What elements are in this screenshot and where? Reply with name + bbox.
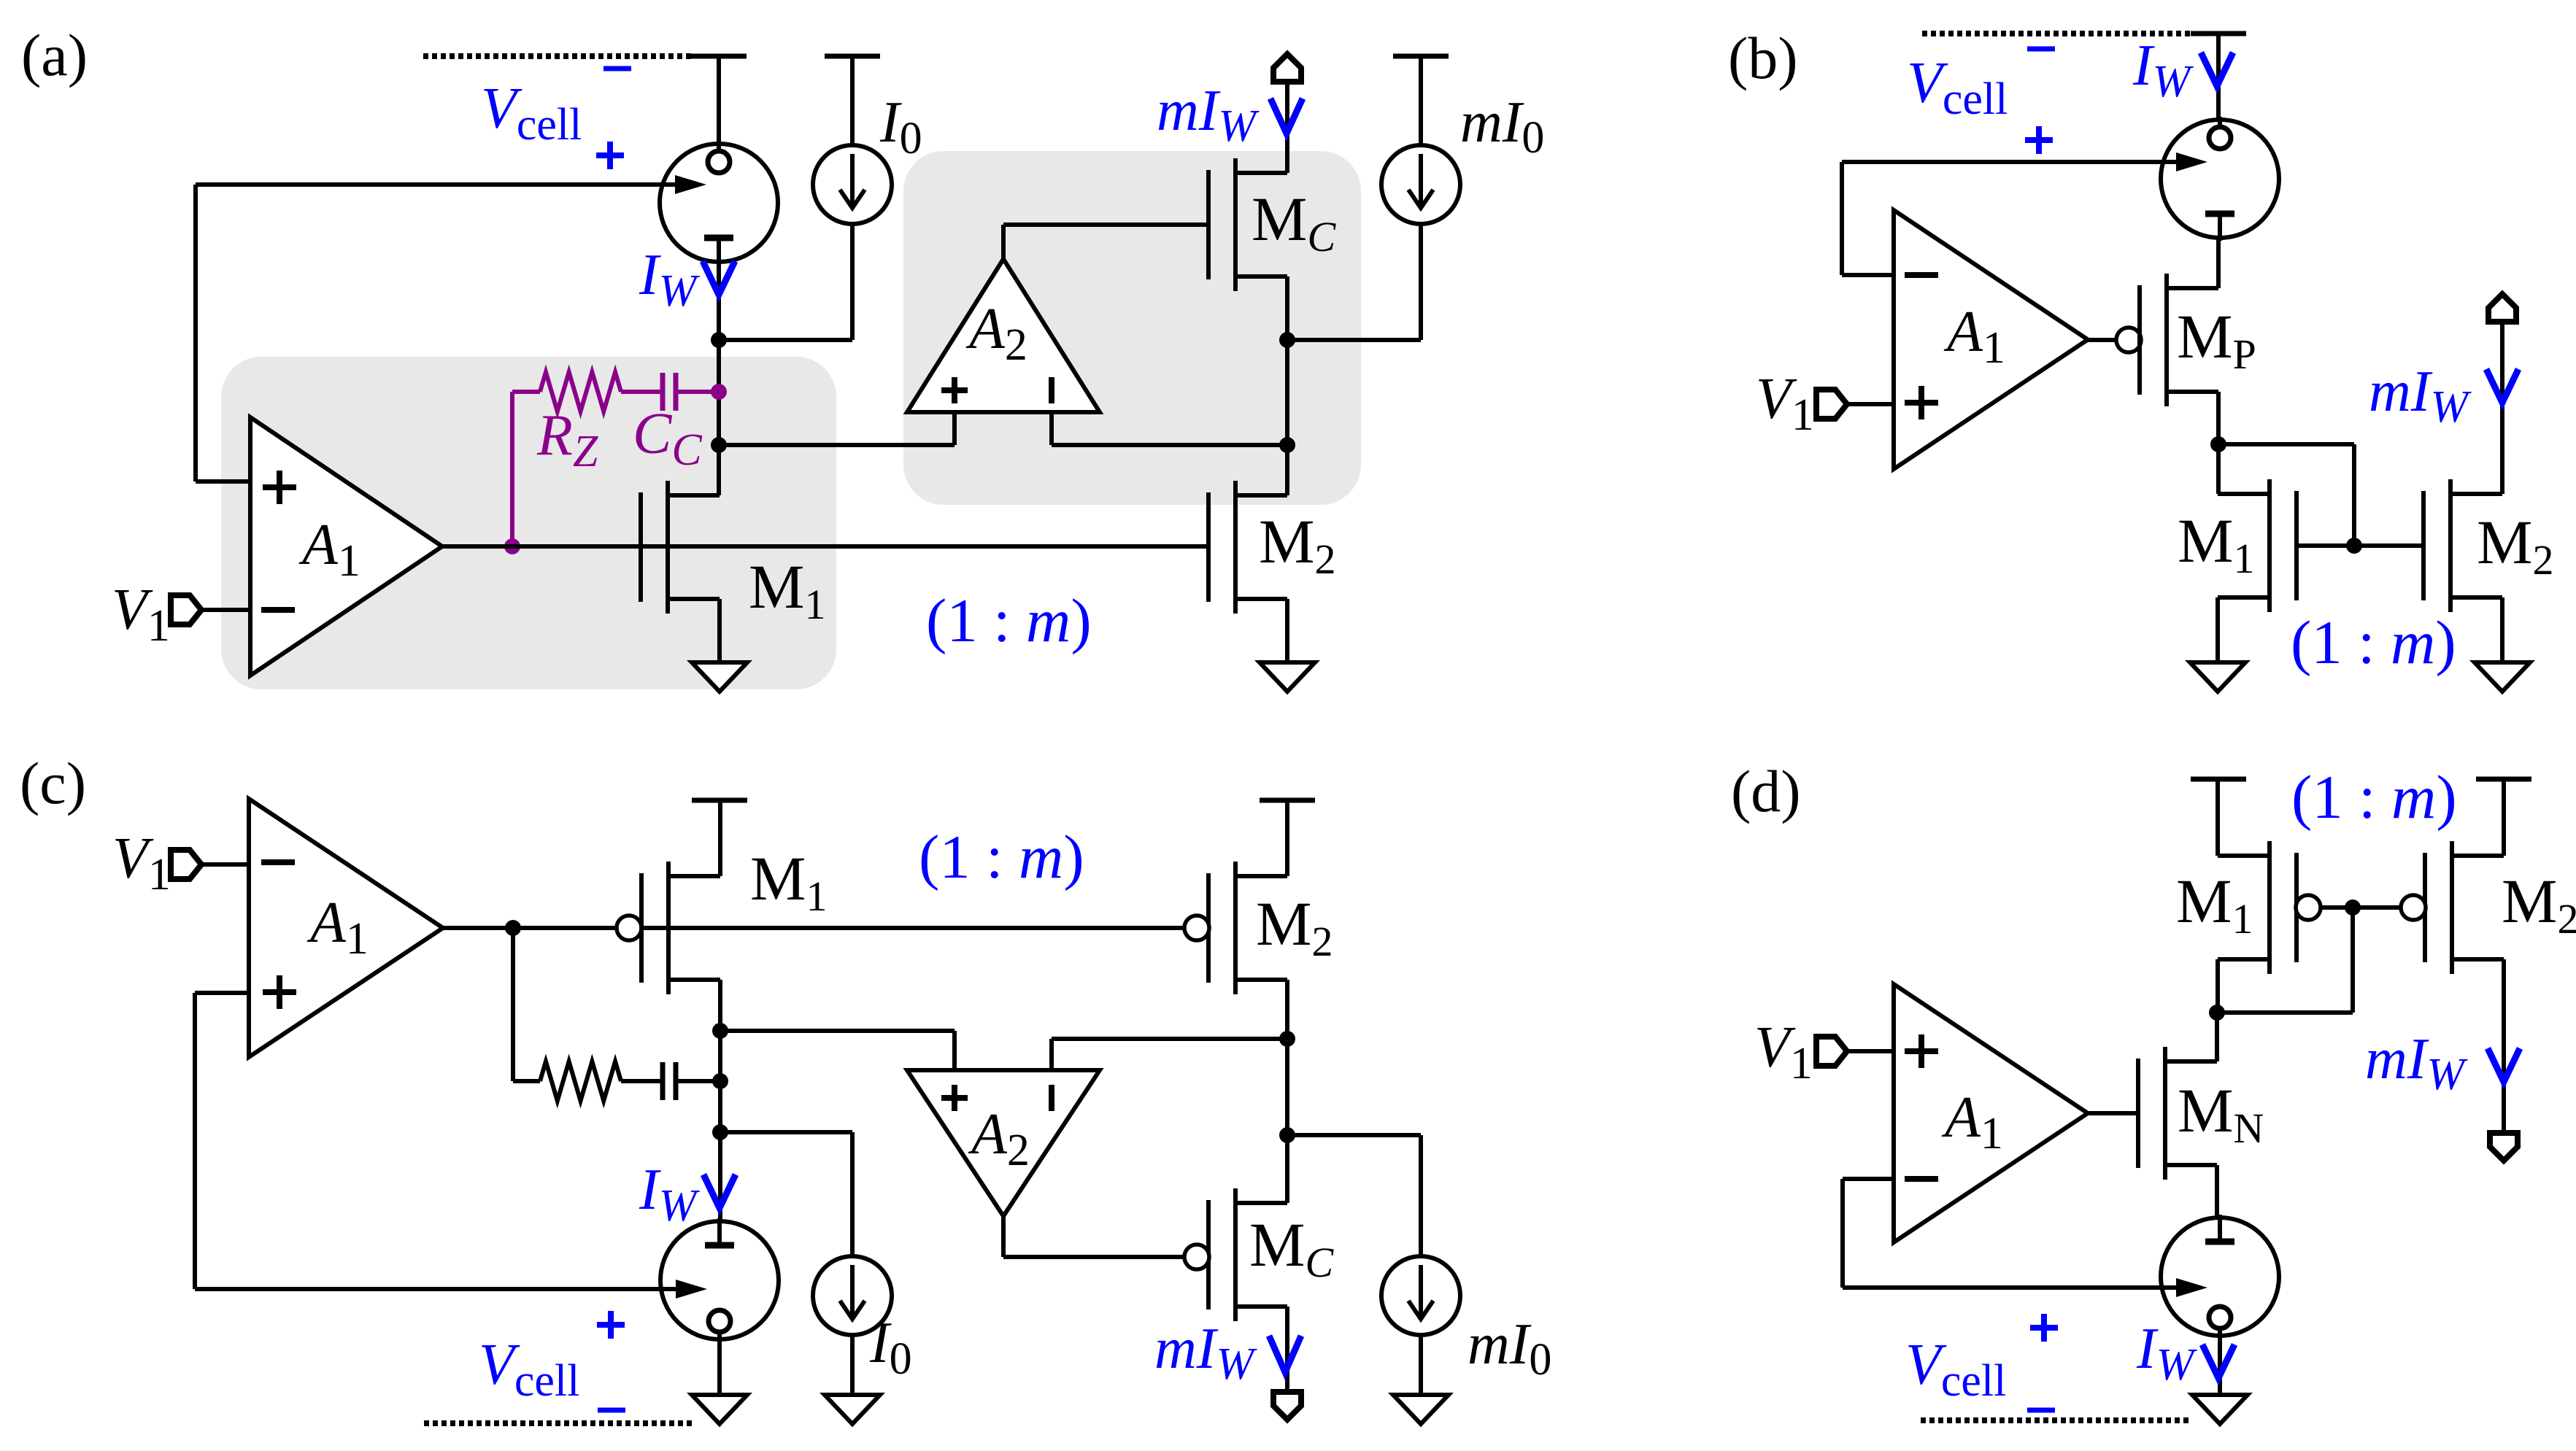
blue current arrow I_W (panel a) [703,261,735,295]
wire M2 drain to node (panel c) [1285,980,1289,1039]
wire MN source to cell (panel d) [2215,1165,2219,1218]
feedback wire vertical (panel a) [193,185,198,481]
A2 plus mark (panel c) [941,1095,968,1101]
supply rail T bar (M1, panel d) [2191,777,2246,782]
node M2 drain (panel a) [1279,437,1295,453]
transistor M1 (panel a) [639,492,643,602]
wire cell to ground (panel c) [717,1339,722,1395]
wire gate to gate (panel d) [2321,905,2401,910]
ground below M1 (panel a) [692,662,747,692]
feedback wire (panel b) [1840,162,1844,275]
ground below I0 (panel c) [825,1395,880,1424]
supply rail T bar (I0, panel a) [825,54,880,59]
A1 plus input mark (panel a) [263,484,296,490]
op-amp A1 (panel b) [1894,210,2088,469]
resistor RZ (panel a) [540,372,621,411]
node junction cell/I0 (panel a) [711,332,727,348]
node M2 drain (panel c) [1279,1031,1295,1047]
op-amp A1 (panel d) [1894,984,2088,1242]
wire with arrow into cell (panel d) [1843,1285,2181,1290]
wire diode connection (panel d) [2217,1010,2353,1015]
wire down to RC (panel c) [511,928,515,1081]
electrochemical cell (panel b) [2161,120,2279,238]
inverter bubble M1 gate (panel d) [2296,895,2321,920]
node MC source / mI0 (panel c) [1279,1127,1295,1143]
feedback wire (panel d) [1843,1177,1894,1181]
ground below cell (panel d) [2192,1395,2248,1424]
wire with arrow into cell (panel c) [195,1287,681,1291]
transistor MN (panel d) [2136,1059,2140,1168]
blue current arrow mIW (panel d) [2488,1048,2520,1082]
wire A2 output to MC gate (panel c) [1001,1216,1006,1257]
svg-text:(1 : m): (1 : m) [926,587,1092,655]
port V1 (panel c) [171,850,201,879]
wire M2 drain to port (panel d) [2502,959,2506,1133]
transistor MC (panel a) [1206,170,1211,279]
op-amp A2 (panel c) [907,1070,1100,1216]
dotted reference line (panel b) [1922,31,2191,36]
node gate mirror (panel d) [2345,899,2361,916]
wire from feedback into cell with arrow (panel a) [196,182,680,187]
supply rail T bar (M1, panel c) [692,798,747,803]
node RC (panel c) [712,1073,728,1089]
transistor M2 (panel d) [2423,853,2427,962]
ground below M1 (panel b) [2190,662,2245,692]
dotted reference line (panel d) [1921,1417,2190,1423]
node MP drain (panel b) [2210,436,2226,452]
port V1 (panel b) [1816,390,1847,419]
wire A2 output to MC gate (panel a) [1001,225,1006,259]
transistor M2 (panel b) [2421,491,2426,600]
port V1 (panel a) [171,595,201,624]
output port mIW (panel a) [1273,54,1301,82]
inverter bubble at MP gate (panel b) [2116,328,2141,352]
wire mI0 to node (panel a) [1419,224,1423,340]
blue current arrow I_W (panel c) [703,1175,736,1208]
current source mI0 (panel a) [1381,145,1460,224]
op-amp A1 (panel a) [250,417,442,676]
blue current arrow mIW (panel a) [1270,98,1303,134]
label plus (panel b cell) [2025,137,2053,143]
capacitor CC (panel a) [660,373,666,411]
A1 plus mark (panel d) [1905,1048,1938,1054]
wire M1 drain down to cell (panel c) [718,980,722,1221]
A2 minus mark (panel a) [1049,377,1054,403]
dotted reference line (panel a) [423,53,691,59]
blue current arrow I_W (panel d) [2202,1344,2234,1378]
wire A2 minus to M2 drain node (panel c) [1049,1039,1054,1070]
transistor M2 (panel a) [1206,492,1211,602]
output port mIW (panel b) [2488,294,2516,322]
ground below cell (panel c) [692,1395,747,1424]
supply rail T bar (mI0, panel a) [1393,54,1449,59]
transistor M1 (panel d) [2294,853,2299,962]
svg-text:(d): (d) [1731,758,1801,824]
A1 minus mark (panel b) [1905,272,1938,278]
op-amp A1 (panel c) [249,799,443,1057]
wire MC drain to port (panel c) [1285,1307,1289,1392]
output port mIW (panel d) [2490,1133,2518,1161]
wire I0 to ground (panel c) [850,1335,855,1395]
A2 minus mark (panel c) [1049,1085,1054,1111]
label plus (panel c cell) [597,1322,625,1328]
wire I0 to node (panel a) [850,224,855,340]
label plus (panel d cell) [2030,1325,2058,1331]
highlight box around A2/MC [903,151,1361,505]
label minus (panel b cell) [2027,47,2055,52]
electrochemical cell (panel d) [2161,1218,2279,1336]
svg-text:(c): (c) [20,750,86,816]
wire MN drain to node (panel d) [2215,1013,2219,1061]
resistor RZ (panel c) [540,1061,621,1101]
ground below M2 (panel b) [2475,662,2530,692]
node M1 drain (panel a) [711,437,727,453]
wire cell bottom to node (panel a) [717,262,721,495]
A1 minus mark (panel d) [1905,1176,1938,1182]
current source I0 (panel a) [813,145,892,224]
supply rail T bar (M2, panel c) [1260,798,1315,803]
wire node to A2 plus (panel a) [719,443,955,447]
A1 plus mark (panel c) [263,989,296,995]
svg-text:(a): (a) [21,22,88,88]
transistor MC (panel c) [1206,1200,1211,1309]
transistor M1 (panel c) [639,873,644,983]
purple wire to RC (panel a) [510,392,514,546]
wire M2 source to ground (panel a) [1285,599,1289,662]
port V1 (panel d) [1816,1037,1847,1066]
node MC source / mI0 (panel a) [1279,332,1295,348]
transistor M1 (panel b) [2294,491,2299,600]
supply rail T bar (panel b) [2191,31,2246,36]
node IW branch (panel c) [712,1124,728,1140]
wire M2 drain to port (panel b) [2500,322,2504,494]
label minus (panel a cell) [603,66,631,71]
wire A1 output to bubble (panel b) [2088,338,2116,342]
wire cell to ground (panel d) [2218,1336,2222,1395]
wire MC drain to port (panel a) [1285,82,1289,173]
wire M1 gate to M2 gate (panel b) [2296,543,2424,548]
A1 minus input mark (panel a) [261,607,295,613]
label plus (panel a cell) [596,152,624,158]
blue current arrow I_W (panel b) [2201,53,2233,86]
wire node to mI0 (panel c) [1287,1133,1421,1137]
wire mI0 to ground (panel c) [1419,1335,1423,1395]
svg-text:(1 : m): (1 : m) [2291,608,2456,677]
node gate mirror (panel b) [2346,538,2362,554]
svg-text:(1 : m): (1 : m) [919,823,1084,891]
transistor M2 (panel c) [1206,873,1211,983]
wire node down to MC (panel c) [1285,1039,1289,1203]
label minus (panel d cell) [2027,1408,2055,1413]
node M1 drain / A2 (panel c) [712,1023,728,1039]
wire A1 output to MN gate (panel d) [2088,1111,2139,1115]
wire A1 output to gates of M1 and M2 (panel a) [442,544,1208,549]
A2 plus mark (panel a) [941,387,968,393]
electrochemical cell (panel a) [660,144,778,262]
wire M1 drain to node (panel d) [2216,959,2220,1013]
wire M1 source to ground (panel b) [2216,597,2220,662]
inverter bubble M2 gate (panel c) [1184,916,1209,940]
wire M1 source to ground (panel a) [717,599,722,662]
inverter bubble MC gate (panel c) [1184,1245,1209,1269]
wire MP source to cell (panel b) [2216,238,2221,288]
op-amp A2 (panel a) [907,259,1100,412]
wire A1 output to gates (panel c) [443,926,1184,930]
dotted reference line (panel c) [424,1420,692,1426]
wire diode connection (panel b) [2218,442,2354,446]
wire node to I0 (panel c) [720,1130,852,1134]
wire A2 minus to M2 drain node (panel a) [1049,412,1054,445]
ground below mI0 (panel c) [1393,1395,1449,1424]
inverter bubble M2 gate (panel d) [2401,895,2426,920]
wire M2 drain up (panel a) [1285,445,1289,495]
wire with arrow into cell (panel b) [1842,160,2181,164]
inverter bubble M1 gate (panel c) [617,916,641,940]
svg-text:(1 : m): (1 : m) [2291,763,2457,832]
blue current arrow mIW (panel c) [1269,1336,1301,1372]
A1 plus mark (panel b) [1905,400,1938,406]
node A1 output (panel c) [505,920,521,936]
output port mIW (panel c) [1273,1392,1301,1420]
highlight box around A1/M1 compensation network [221,357,836,689]
node purple at A1 output (panel a) [504,538,520,554]
wire M2 source to ground (panel b) [2500,597,2504,662]
electrochemical cell (panel c) [660,1221,779,1339]
feedback wire (panel c) [195,991,249,995]
node purple at RC output (panel a) [711,384,727,400]
ground below M2 (panel a) [1260,662,1315,692]
wire MC source to node (panel a) [1285,276,1289,445]
label minus (panel c cell) [598,1408,625,1413]
wire node to A2 plus (panel c) [720,1029,955,1033]
supply rail T bar (M2, panel d) [2476,777,2531,782]
current source mI0 (panel c) [1381,1256,1460,1335]
node MN drain (panel d) [2209,1005,2225,1021]
supply rail T bar (panel a cell) [691,54,747,59]
svg-text:(b): (b) [1728,25,1798,91]
current source I0 (panel c) [813,1256,892,1335]
transistor MP (panel b) [2137,285,2142,395]
A1 minus mark (panel c) [261,859,295,865]
wire MP drain to node (panel b) [2216,392,2221,494]
capacitor CC (panel c) [660,1062,666,1100]
blue current arrow mIW (panel b) [2486,369,2518,403]
